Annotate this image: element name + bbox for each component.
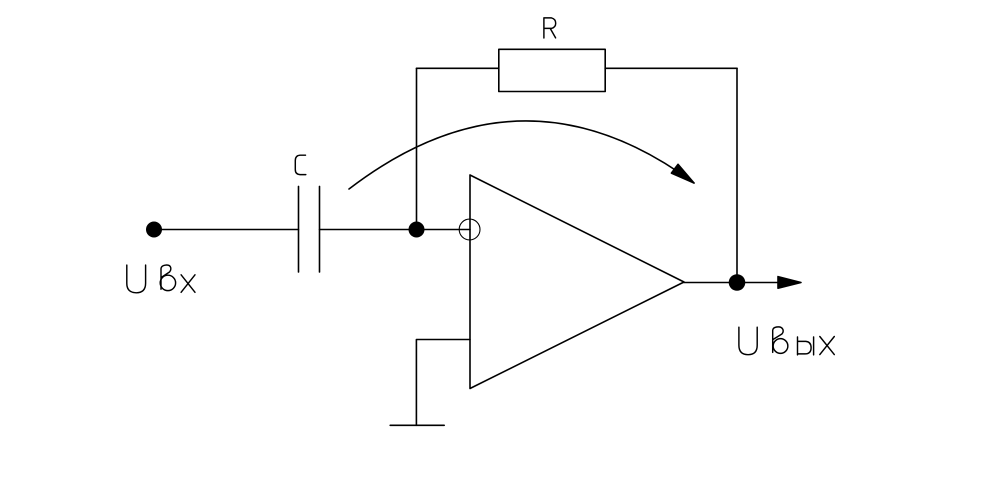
output arrow <box>778 277 801 289</box>
inverting input circle <box>459 219 480 240</box>
label Uvx: v <box>160 265 175 291</box>
wire feedback to resistor <box>417 67 499 69</box>
label R value <box>544 18 556 38</box>
wire input to capacitor <box>154 229 299 231</box>
label Uvx: x <box>181 275 195 293</box>
wire non-inverting input <box>416 340 470 426</box>
label C value <box>295 155 306 174</box>
wire feedback vertical right <box>736 68 738 282</box>
wire output <box>684 282 780 284</box>
feedback direction arc <box>349 121 694 189</box>
node input terminal <box>146 222 162 238</box>
wire feedback vertical left <box>416 68 418 229</box>
node junction at inverting input <box>409 222 425 238</box>
ground <box>390 424 444 426</box>
label Uvyx: v <box>773 327 788 354</box>
capacitor C1 left plate <box>298 186 300 272</box>
label Uvyx: y <box>798 337 814 355</box>
capacitor C1 right plate <box>319 186 321 272</box>
node output terminal <box>729 274 746 291</box>
feedback arc arrowhead <box>671 164 694 183</box>
op-amp U1 <box>470 175 684 389</box>
wire resistor to output branch <box>605 67 737 69</box>
label Uvx: U <box>127 265 146 293</box>
resistor R1 <box>499 49 605 91</box>
label Uvyx: x <box>820 337 835 355</box>
label Uvyx: U <box>739 327 757 355</box>
wire capacitor to op-amp inverting input <box>320 229 471 231</box>
